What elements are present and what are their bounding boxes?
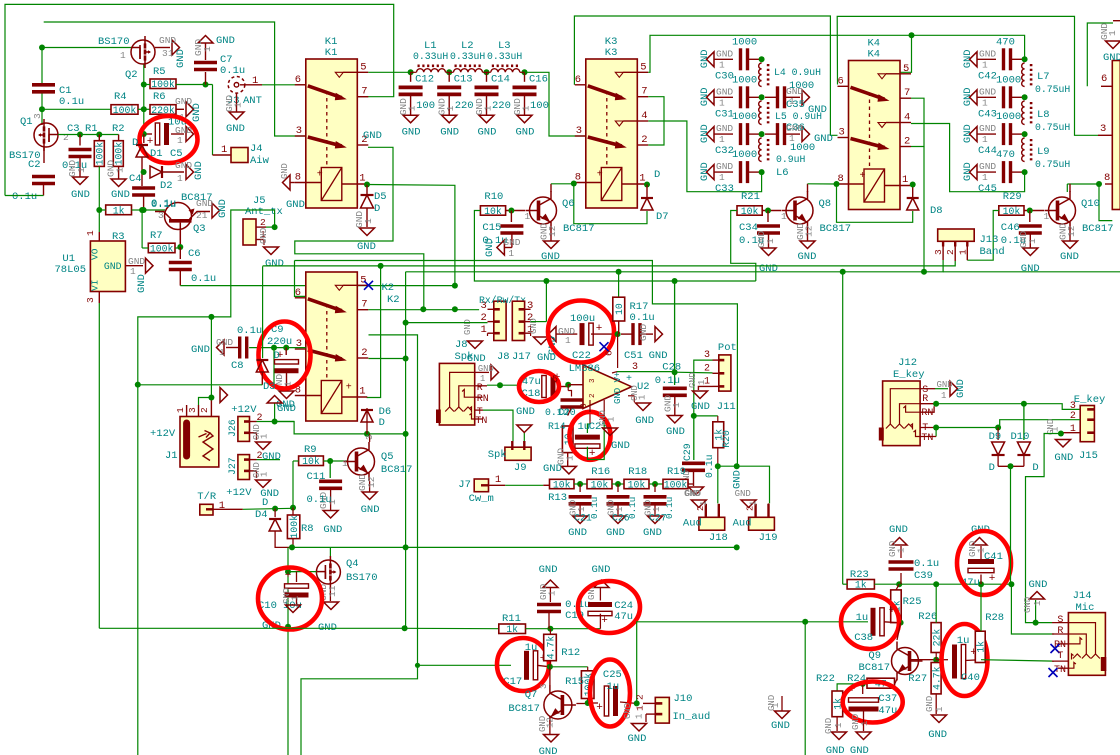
svg-text:GND: GND	[1029, 579, 1048, 591]
junction D4 top	[272, 506, 278, 512]
svg-text:D3: D3	[263, 381, 276, 393]
svg-text:J26: J26	[227, 419, 238, 437]
svg-text:L7: L7	[1037, 71, 1050, 83]
svg-text:TN: TN	[475, 416, 487, 427]
wire ANT to K1.6	[262, 84, 306, 86]
capacitor C18 electrolytic 47u	[542, 376, 546, 398]
svg-text:1: 1	[508, 248, 514, 259]
red circle C40	[942, 624, 988, 696]
svg-text:1: 1	[982, 59, 988, 70]
connector Pot J11	[719, 355, 731, 391]
capacitor C39	[900, 573, 902, 584]
wire D net down to J14.R	[1011, 466, 1055, 634]
junction C7	[203, 82, 209, 88]
transistor Q5 BC817	[348, 448, 375, 475]
svg-text:22k: 22k	[932, 629, 943, 647]
svg-text:C4: C4	[129, 173, 142, 185]
svg-text:GND: GND	[467, 353, 486, 365]
wire R20 node to J19.1	[718, 466, 770, 503]
svg-text:1: 1	[719, 172, 725, 183]
wire D4 bottom to bus	[275, 531, 292, 547]
wire J26.2 gnd up	[274, 403, 276, 422]
resistor R22 1k	[832, 691, 843, 717]
svg-text:GND: GND	[175, 160, 192, 171]
wire Q4 drain to bus	[329, 547, 331, 556]
capacitor C32	[707, 127, 715, 142]
wire LPF1 out to K3.3	[525, 72, 586, 136]
junction J12.R	[933, 401, 939, 407]
diode D8	[907, 197, 919, 199]
wire y22 inner	[44, 22, 306, 136]
wire K4 bracket down to bus y272	[923, 147, 925, 273]
svg-text:R19: R19	[667, 466, 686, 478]
svg-text:21: 21	[196, 210, 208, 221]
svg-text:R4: R4	[114, 91, 127, 103]
svg-text:Cw_m: Cw_m	[469, 493, 494, 505]
svg-text:L8: L8	[1037, 109, 1050, 121]
J6 TN stub	[475, 418, 483, 420]
svg-text:K2: K2	[382, 282, 395, 294]
U1 78L05 regulator	[90, 241, 125, 292]
svg-text:GND: GND	[826, 745, 845, 755]
capacitor C42	[970, 52, 978, 67]
svg-text:1: 1	[699, 501, 709, 506]
inductor L6	[759, 138, 762, 162]
svg-text:GND: GND	[191, 344, 210, 356]
svg-text:100u: 100u	[570, 313, 595, 325]
svg-text:GND: GND	[925, 696, 935, 712]
svg-text:0.1u: 0.1u	[627, 497, 638, 519]
svg-text:GND: GND	[928, 729, 947, 741]
svg-text:1: 1	[565, 335, 571, 346]
bus y272 right portion to edge	[943, 271, 1120, 273]
capacitor C13	[448, 72, 450, 82]
junction C25/J10	[634, 700, 640, 706]
svg-text:+12V: +12V	[226, 487, 252, 499]
svg-text:3: 3	[32, 113, 43, 119]
svg-text:R26: R26	[918, 611, 937, 623]
svg-text:GND: GND	[666, 426, 685, 438]
svg-text:BS170: BS170	[346, 572, 378, 584]
capacitor C16	[524, 72, 526, 82]
gnd at Q8 emitter	[807, 230, 809, 241]
svg-text:GND: GND	[484, 238, 496, 257]
svg-text:6: 6	[295, 287, 301, 299]
wire R net to J15.3	[936, 404, 1080, 410]
wire to C25	[588, 702, 598, 704]
connector J27	[238, 455, 250, 480]
gnd above C41	[972, 538, 987, 546]
capacitor C40 electrolytic 1u	[936, 659, 948, 661]
svg-text:1: 1	[175, 407, 186, 413]
svg-text:0.1u: 0.1u	[59, 96, 84, 108]
junction x274 col	[271, 345, 277, 351]
wire K3.7-K3.2 bracket	[648, 97, 664, 145]
junction R5 row	[141, 82, 147, 88]
svg-text:ANT: ANT	[243, 95, 262, 107]
svg-text:LM386: LM386	[569, 363, 601, 375]
svg-text:GND: GND	[649, 350, 668, 362]
svg-text:R8: R8	[301, 523, 314, 535]
svg-text:1000: 1000	[790, 142, 815, 154]
wire Pot.2	[675, 371, 713, 374]
wire x274 down	[273, 348, 275, 385]
gnd at Q5 emitter	[369, 481, 371, 492]
svg-text:GND: GND	[699, 124, 711, 143]
svg-text:4: 4	[904, 112, 910, 124]
capacitor C23 electrolytic 1u	[589, 412, 591, 424]
wire J18.1 drop	[717, 466, 719, 503]
svg-text:J14: J14	[1073, 590, 1092, 602]
wire R5 to C7 to ANT row y84.5	[176, 84, 213, 86]
svg-text:J8: J8	[497, 351, 510, 363]
svg-text:1k: 1k	[855, 580, 867, 591]
svg-text:C39: C39	[914, 570, 933, 582]
svg-text:10k: 10k	[741, 206, 759, 217]
svg-text:D7: D7	[656, 211, 669, 223]
resistor R11 1k	[499, 624, 526, 634]
svg-text:GND: GND	[798, 251, 817, 263]
wire D9-D10 join	[998, 465, 1024, 467]
resistor R21 10k	[737, 206, 762, 215]
svg-text:100k: 100k	[113, 105, 137, 116]
capacitor C26 0.1u	[617, 484, 619, 492]
junction K4.1	[910, 182, 916, 188]
bus y628 long	[99, 627, 404, 629]
wire y35.3 to C42 column	[912, 35, 1025, 59]
wire R23 node row	[874, 583, 1011, 585]
svg-text:J19: J19	[759, 532, 778, 544]
inductor L1	[417, 69, 446, 73]
svg-text:R7: R7	[150, 230, 163, 242]
wire x405.6 vertical	[405, 272, 407, 628]
wire Q1 gate row y134.5	[58, 134, 119, 136]
junction R10/C15	[506, 210, 525, 212]
Q9 collector	[897, 623, 901, 640]
svg-text:1000: 1000	[732, 36, 757, 48]
svg-text:1: 1	[781, 211, 787, 222]
wire y16 net K4.6 to K5.3	[837, 16, 1098, 135]
wire K4.7-K4.2 bracket	[911, 98, 924, 146]
junction K1.1	[364, 182, 370, 188]
svg-text:GND: GND	[592, 564, 611, 576]
svg-text:Q2: Q2	[125, 69, 138, 81]
svg-text:J7: J7	[458, 479, 471, 491]
capacitor C7	[194, 61, 217, 65]
svg-text:1: 1	[671, 402, 682, 408]
svg-text:Q7: Q7	[525, 689, 538, 701]
wire U1 VI down long	[98, 303, 100, 628]
svg-text:BC817: BC817	[381, 464, 413, 476]
svg-text:BC817: BC817	[820, 223, 852, 235]
resistor R16 10k	[587, 479, 612, 488]
svg-text:GND: GND	[937, 380, 953, 390]
svg-text:E_key: E_key	[1074, 394, 1106, 406]
svg-text:GND: GND	[402, 126, 421, 138]
gnd below C29	[693, 470, 695, 486]
svg-text:1: 1	[615, 507, 625, 512]
svg-text:1: 1	[977, 548, 987, 553]
capacitor C5 electrolytic 10u	[144, 133, 152, 135]
junction C33	[759, 169, 765, 175]
junction L2/L3	[484, 69, 490, 75]
inductor L2	[449, 71, 453, 73]
svg-text:GND: GND	[539, 746, 558, 755]
resistor R12 4.7k	[544, 634, 557, 660]
capacitor C34 0.1u	[767, 211, 769, 223]
capacitor C9 electrolytic 220u	[285, 348, 287, 355]
svg-text:+12V: +12V	[231, 404, 257, 416]
wire LM386 output pin3	[617, 371, 675, 373]
junction x405.6 y547.4	[403, 544, 409, 550]
transistor Q3 BC817 rotated	[165, 203, 192, 230]
wire K3.8 loop to D7	[574, 183, 647, 224]
gnd at U2 right pin	[628, 395, 634, 397]
svg-text:3: 3	[839, 127, 845, 139]
junction D10 top	[1021, 401, 1027, 407]
wire Q2 gate vertical	[143, 64, 145, 134]
wire R9 left down	[292, 461, 294, 508]
svg-text:3: 3	[365, 435, 375, 440]
svg-text:Spk: Spk	[488, 449, 507, 461]
svg-text:C45: C45	[978, 183, 997, 195]
gnd below C9	[279, 391, 294, 399]
svg-text:1: 1	[233, 102, 244, 108]
svg-text:C11: C11	[307, 471, 326, 483]
gnd at J10.1	[645, 714, 647, 722]
junction C38/R25/Q9	[898, 620, 904, 626]
svg-text:2: 2	[589, 393, 597, 398]
svg-text:GND: GND	[699, 87, 711, 106]
svg-text:1000: 1000	[996, 111, 1021, 123]
svg-text:D8: D8	[930, 205, 943, 217]
wire Q2 drain row y47.5	[42, 47, 131, 49]
svg-text:GND: GND	[814, 133, 833, 145]
capacitor C29	[693, 416, 695, 460]
svg-text:1: 1	[120, 50, 126, 61]
svg-text:1: 1	[577, 507, 587, 512]
svg-text:R22: R22	[816, 673, 835, 685]
svg-text:R25: R25	[903, 596, 922, 608]
svg-text:1: 1	[1033, 601, 1043, 606]
resistor R7 100k	[148, 243, 175, 253]
svg-text:3: 3	[589, 378, 597, 383]
svg-text:100k: 100k	[151, 79, 175, 90]
svg-text:GND: GND	[539, 564, 558, 576]
transistor Q6 BC817	[530, 197, 557, 224]
svg-text:1: 1	[1044, 211, 1050, 222]
resistor R29 10k	[999, 206, 1024, 215]
wire C1 vertical	[41, 48, 43, 84]
junction J14R col	[1008, 581, 1014, 587]
svg-text:1: 1	[342, 458, 348, 469]
svg-text:GND: GND	[685, 489, 701, 499]
wire J17.2 riser to R10 row	[531, 321, 547, 323]
wire Q8 collector to K4.8	[808, 183, 837, 185]
svg-text:L5 0.9uH: L5 0.9uH	[775, 111, 822, 122]
resistor R14	[568, 407, 572, 416]
svg-text:1u: 1u	[856, 612, 869, 624]
svg-text:C37: C37	[878, 693, 897, 705]
svg-text:J11: J11	[717, 401, 736, 413]
svg-text:GND: GND	[759, 263, 778, 275]
svg-text:J10: J10	[674, 693, 693, 705]
red circle C9	[259, 322, 311, 389]
junction R16/R18	[615, 481, 621, 487]
wire R5 left	[144, 84, 150, 86]
capacitor C41 electrolytic 47u	[980, 575, 982, 585]
svg-text:10k: 10k	[302, 456, 320, 467]
svg-text:0.1u: 0.1u	[191, 273, 216, 285]
gnd right of J1.2	[220, 388, 228, 403]
junction C30	[759, 56, 765, 62]
svg-text:D: D	[132, 137, 138, 149]
svg-text:2: 2	[635, 694, 646, 700]
svg-text:+: +	[317, 170, 323, 181]
junction R18/R19	[652, 481, 658, 487]
wire C40 out to J14.T	[981, 660, 1054, 661]
junction R4 row	[39, 106, 45, 112]
svg-text:1: 1	[260, 434, 270, 439]
wire pin6 stub into triangle	[617, 348, 619, 368]
svg-text:GND: GND	[357, 241, 376, 253]
connector J1 +12V barrel	[180, 417, 219, 468]
wire K2.7 row	[368, 309, 479, 311]
svg-text:L9: L9	[1037, 146, 1050, 158]
capacitor C35	[776, 86, 779, 108]
svg-text:GND: GND	[691, 401, 710, 413]
svg-text:R2: R2	[112, 123, 125, 135]
svg-text:GND: GND	[979, 86, 996, 97]
connector J18 Aud	[699, 517, 725, 530]
svg-text:6: 6	[838, 75, 844, 87]
wire C2 bottom to border	[5, 195, 44, 197]
junction L3 out	[522, 69, 528, 75]
wire R10 left lead down	[474, 211, 755, 282]
svg-text:K2: K2	[387, 294, 400, 306]
resistor R4	[111, 105, 138, 115]
capacitor C20	[567, 385, 569, 391]
svg-text:0.1u: 0.1u	[307, 494, 332, 506]
svg-text:GND: GND	[635, 415, 654, 427]
junction K3.1	[644, 182, 650, 188]
junction L1 in	[408, 69, 414, 75]
svg-text:GND: GND	[962, 124, 974, 143]
junction x805	[802, 619, 808, 625]
junction J5.2	[272, 224, 278, 230]
svg-text:1u: 1u	[957, 635, 970, 647]
resistor R9 10k	[299, 456, 324, 466]
svg-text:8: 8	[1104, 172, 1110, 184]
svg-text:5: 5	[360, 274, 366, 286]
svg-text:1k: 1k	[506, 624, 518, 635]
svg-text:7: 7	[641, 86, 647, 98]
gnd at J18.2	[705, 505, 707, 508]
svg-text:R: R	[477, 383, 483, 394]
junction R3 left node	[96, 207, 102, 213]
resistor R1	[94, 141, 104, 167]
svg-text:R11: R11	[502, 613, 521, 625]
svg-text:1: 1	[860, 721, 870, 726]
svg-text:1000: 1000	[996, 74, 1021, 86]
svg-text:J13: J13	[980, 234, 999, 246]
svg-text:0.33uH: 0.33uH	[450, 51, 485, 62]
svg-text:TN: TN	[921, 433, 933, 444]
svg-text:Aiw: Aiw	[250, 155, 270, 167]
svg-text:R: R	[1057, 626, 1063, 637]
svg-text:1: 1	[652, 507, 662, 512]
svg-text:GND: GND	[217, 199, 229, 218]
svg-text:C43: C43	[978, 108, 997, 120]
jack J6 speaker	[439, 363, 474, 425]
svg-text:C12: C12	[415, 73, 434, 85]
K5 pin3 wire	[1098, 134, 1112, 136]
svg-text:GND: GND	[623, 703, 633, 719]
gnd below R22	[836, 717, 838, 731]
gnd below R27	[935, 694, 937, 714]
gnd below C46	[1029, 233, 1031, 248]
transistor Q9 BC817 mirrored	[892, 648, 919, 675]
wire R4 row	[42, 108, 111, 110]
svg-text:GND: GND	[1103, 52, 1120, 64]
junction at x454.9	[452, 283, 458, 289]
svg-text:1: 1	[982, 134, 988, 145]
red circle C37	[843, 682, 903, 723]
resistor R8 100k	[287, 515, 299, 539]
svg-text:8: 8	[578, 403, 589, 409]
svg-text:1: 1	[941, 391, 946, 401]
svg-text:C25: C25	[603, 669, 622, 681]
svg-text:J8: J8	[455, 339, 468, 351]
transistor Q1 BS170	[34, 123, 58, 147]
inductor L4	[759, 63, 762, 87]
svg-text:R9: R9	[304, 444, 317, 456]
blue X near pin6	[600, 342, 609, 351]
svg-text:5: 5	[552, 375, 558, 386]
wire node down to U1	[98, 210, 100, 232]
svg-text:R28: R28	[985, 612, 1004, 624]
resistor R18 10k	[624, 479, 649, 488]
capacitor C12	[410, 72, 412, 82]
svg-text:GND: GND	[732, 470, 744, 489]
wire LPF nodes	[411, 71, 417, 73]
bus y628 middle	[526, 628, 601, 630]
junction C44	[1022, 131, 1028, 137]
inductor L7	[1022, 63, 1025, 87]
junction K2.7 x455	[452, 306, 458, 312]
svg-text:1: 1	[565, 455, 576, 461]
gnd above C24	[594, 580, 609, 588]
svg-text:1: 1	[897, 548, 907, 553]
svg-text:R15: R15	[565, 676, 584, 688]
svg-text:1: 1	[359, 386, 365, 398]
svg-text:GND: GND	[735, 489, 751, 499]
wire J4 drop	[212, 85, 214, 156]
svg-text:0.75uH: 0.75uH	[1035, 159, 1070, 170]
junction K2.7 x423	[420, 306, 426, 312]
wire K5 coil to Q10 collector	[1067, 183, 1099, 185]
junction R20/J18	[715, 463, 721, 469]
gnd below R14	[567, 453, 569, 466]
wire R17 feed	[618, 272, 620, 297]
svg-text:R13: R13	[548, 492, 567, 504]
svg-text:+: +	[597, 170, 603, 181]
wire K5.8 down	[1099, 184, 1112, 221]
resistor R10 10k	[480, 206, 505, 215]
diode D10	[1023, 404, 1025, 440]
wire R19 to C29 gnd node	[688, 483, 694, 485]
svg-text:470: 470	[996, 36, 1015, 48]
